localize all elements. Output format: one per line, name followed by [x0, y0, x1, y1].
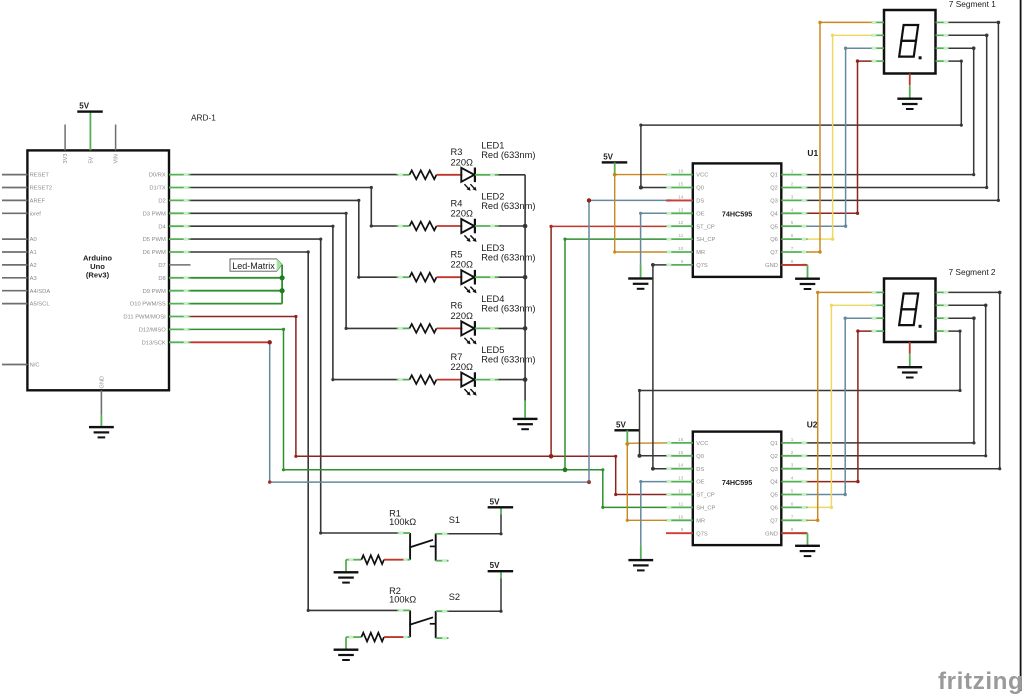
svg-text:S1: S1 — [449, 515, 460, 525]
svg-text:R3: R3 — [451, 147, 463, 157]
svg-text:LED2: LED2 — [481, 192, 504, 202]
svg-text:D0/RX: D0/RX — [149, 173, 166, 179]
svg-text:5V: 5V — [79, 102, 89, 111]
svg-text:fritzing: fritzing — [938, 668, 1022, 694]
svg-text:D12/MISO: D12/MISO — [139, 328, 167, 334]
svg-text:Q2: Q2 — [770, 186, 778, 192]
svg-text:1: 1 — [791, 437, 794, 442]
svg-text:LED3: LED3 — [481, 243, 504, 253]
svg-text:MR: MR — [696, 518, 705, 524]
svg-text:Q6: Q6 — [770, 237, 778, 243]
svg-text:220Ω: 220Ω — [451, 362, 474, 372]
svg-text:Q5: Q5 — [770, 224, 778, 230]
svg-text:2: 2 — [791, 450, 794, 455]
svg-text:8: 8 — [791, 527, 794, 532]
svg-text:Led-Matrix: Led-Matrix — [232, 261, 275, 271]
svg-text:Q7: Q7 — [770, 250, 778, 256]
svg-text:7: 7 — [791, 246, 794, 251]
svg-text:7 Segment 1: 7 Segment 1 — [949, 0, 996, 9]
svg-text:A0: A0 — [30, 237, 37, 243]
svg-text:3V3: 3V3 — [63, 154, 69, 164]
svg-text:10: 10 — [678, 514, 684, 519]
svg-text:ARD-1: ARD-1 — [191, 112, 216, 122]
svg-text:5V: 5V — [490, 561, 500, 570]
svg-text:(Rev3): (Rev3) — [86, 270, 110, 279]
svg-text:2: 2 — [791, 182, 794, 187]
svg-text:Red (633nm): Red (633nm) — [481, 304, 535, 314]
svg-text:Q1: Q1 — [770, 441, 778, 447]
svg-text:RESET: RESET — [30, 173, 50, 179]
svg-text:SH_CP: SH_CP — [696, 506, 715, 512]
svg-text:LED1: LED1 — [481, 140, 504, 150]
svg-text:5: 5 — [791, 220, 794, 225]
svg-text:Red (633nm): Red (633nm) — [481, 201, 535, 211]
svg-text:15: 15 — [678, 450, 684, 455]
svg-text:D5 PWM: D5 PWM — [143, 237, 166, 243]
svg-text:Q2: Q2 — [770, 454, 778, 460]
svg-text:Q4: Q4 — [770, 211, 778, 217]
svg-text:3: 3 — [791, 463, 794, 468]
svg-text:74HC595: 74HC595 — [722, 478, 752, 487]
svg-text:9: 9 — [681, 259, 684, 264]
svg-text:SH_CP: SH_CP — [696, 237, 715, 243]
svg-text:D7: D7 — [158, 263, 165, 269]
svg-text:74HC595: 74HC595 — [722, 210, 752, 219]
svg-text:R6: R6 — [451, 301, 463, 311]
svg-text:Q6: Q6 — [770, 506, 778, 512]
svg-text:ioref: ioref — [30, 211, 42, 217]
svg-text:ST_CP: ST_CP — [696, 493, 715, 499]
svg-text:16: 16 — [678, 437, 684, 442]
svg-text:15: 15 — [678, 182, 684, 187]
svg-text:GND: GND — [100, 376, 106, 388]
svg-text:DS: DS — [696, 199, 704, 205]
svg-text:ST_CP: ST_CP — [696, 224, 715, 230]
svg-text:D8: D8 — [158, 276, 165, 282]
svg-text:5V: 5V — [603, 152, 613, 161]
svg-text:A2: A2 — [30, 263, 37, 269]
svg-text:GND: GND — [765, 263, 778, 269]
svg-text:220Ω: 220Ω — [451, 157, 474, 167]
svg-text:D10 PWM/SS: D10 PWM/SS — [130, 302, 166, 308]
svg-text:10: 10 — [678, 246, 684, 251]
svg-text:11: 11 — [679, 501, 684, 506]
svg-text:D1/TX: D1/TX — [149, 186, 166, 192]
svg-text:220Ω: 220Ω — [451, 311, 474, 321]
svg-text:DS: DS — [696, 467, 704, 473]
svg-text:14: 14 — [678, 463, 684, 468]
svg-text:100kΩ: 100kΩ — [389, 517, 416, 527]
svg-text:AREF: AREF — [30, 199, 46, 205]
svg-text:OE: OE — [696, 480, 704, 486]
svg-text:6: 6 — [791, 501, 794, 506]
svg-text:7 Segment 2: 7 Segment 2 — [949, 267, 996, 277]
svg-text:13: 13 — [678, 476, 684, 481]
svg-text:5V: 5V — [616, 420, 626, 429]
svg-text:13: 13 — [678, 207, 684, 212]
svg-text:Q3: Q3 — [770, 467, 778, 473]
svg-text:MR: MR — [696, 250, 705, 256]
svg-text:A5/SCL: A5/SCL — [30, 302, 51, 308]
svg-text:R4: R4 — [451, 198, 463, 208]
svg-text:Red (633nm): Red (633nm) — [481, 355, 535, 365]
svg-text:D6 PWM: D6 PWM — [143, 250, 166, 256]
svg-text:12: 12 — [678, 489, 684, 494]
svg-text:D9 PWM: D9 PWM — [143, 289, 166, 295]
svg-text:D13/SCK: D13/SCK — [142, 340, 166, 346]
svg-text:100kΩ: 100kΩ — [389, 595, 416, 605]
svg-text:Q5: Q5 — [770, 493, 778, 499]
svg-text:11: 11 — [679, 233, 684, 238]
svg-text:Red (633nm): Red (633nm) — [481, 150, 535, 160]
svg-text:N/C: N/C — [30, 363, 40, 369]
svg-text:R7: R7 — [451, 352, 463, 362]
svg-text:Q1: Q1 — [770, 173, 778, 179]
svg-text:GND: GND — [765, 531, 778, 537]
svg-text:VIN: VIN — [114, 154, 120, 163]
svg-text:3: 3 — [791, 194, 794, 199]
svg-text:RESET2: RESET2 — [30, 186, 53, 192]
svg-text:R5: R5 — [451, 250, 463, 260]
svg-text:D3 PWM: D3 PWM — [143, 211, 166, 217]
svg-text:8: 8 — [791, 259, 794, 264]
svg-text:6: 6 — [791, 233, 794, 238]
svg-text:1: 1 — [791, 169, 794, 174]
svg-text:Q0: Q0 — [696, 454, 704, 460]
svg-text:Red (633nm): Red (633nm) — [481, 252, 535, 262]
svg-text:4: 4 — [791, 207, 794, 212]
svg-text:U2: U2 — [807, 419, 818, 429]
svg-text:VCC: VCC — [696, 441, 708, 447]
svg-text:Q0: Q0 — [696, 186, 704, 192]
svg-text:Q7S: Q7S — [696, 531, 708, 537]
svg-text:7: 7 — [791, 514, 794, 519]
svg-text:U1: U1 — [807, 148, 818, 158]
svg-text:16: 16 — [678, 169, 684, 174]
svg-text:D4: D4 — [158, 224, 166, 230]
svg-text:LED5: LED5 — [481, 345, 504, 355]
svg-text:14: 14 — [678, 194, 684, 199]
svg-text:VCC: VCC — [696, 173, 708, 179]
svg-text:A1: A1 — [30, 250, 37, 256]
svg-text:5: 5 — [791, 489, 794, 494]
svg-text:Q3: Q3 — [770, 199, 778, 205]
svg-text:Q7S: Q7S — [696, 263, 708, 269]
svg-text:12: 12 — [678, 220, 684, 225]
svg-text:LED4: LED4 — [481, 294, 504, 304]
svg-text:Q4: Q4 — [770, 480, 778, 486]
svg-text:9: 9 — [681, 527, 684, 532]
svg-text:S2: S2 — [449, 592, 460, 602]
svg-text:D11 PWM/MOSI: D11 PWM/MOSI — [123, 315, 166, 321]
svg-text:5V: 5V — [89, 156, 95, 163]
svg-text:220Ω: 220Ω — [451, 260, 474, 270]
svg-text:A3: A3 — [30, 276, 37, 282]
svg-text:4: 4 — [791, 476, 794, 481]
svg-text:5V: 5V — [490, 497, 500, 506]
svg-text:220Ω: 220Ω — [451, 209, 474, 219]
svg-text:OE: OE — [696, 211, 704, 217]
svg-text:Q7: Q7 — [770, 518, 778, 524]
svg-text:D2: D2 — [158, 199, 165, 205]
svg-text:A4/SDA: A4/SDA — [30, 289, 51, 295]
